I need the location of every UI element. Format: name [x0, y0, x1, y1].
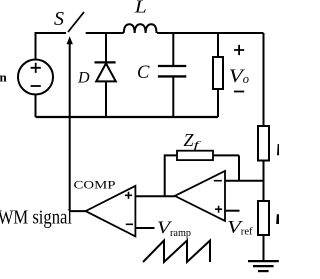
- svg-text:S: S: [54, 8, 64, 30]
- wire source top lead to switch: [36, 33, 67, 60]
- sawtooth Vramp waveform: [143, 241, 210, 263]
- resistor R2: [258, 201, 269, 235]
- svg-text:n: n: [0, 70, 8, 85]
- label Vo: [229, 67, 249, 87]
- label S: [54, 8, 64, 30]
- ground: [248, 261, 279, 271]
- label + (Vo): [234, 45, 244, 55]
- impedance Zf: [165, 151, 239, 197]
- label Vin (cut at edge): [0, 70, 8, 85]
- svg-text:Vref: Vref: [227, 217, 253, 238]
- svg-text:Zf: Zf: [184, 130, 203, 152]
- inductor L: [124, 24, 157, 33]
- capacitor C: [158, 66, 186, 76]
- svg-text:Vramp: Vramp: [157, 218, 191, 239]
- label Zf: [184, 130, 203, 152]
- wire comparator output: [70, 210, 86, 212]
- label L: [134, 0, 147, 17]
- wire load bottom lead: [217, 89, 219, 117]
- wire right branch to R1: [263, 33, 265, 126]
- wire capacitor bottom lead: [172, 77, 174, 117]
- wire error amp plus input to Vref: [225, 210, 240, 212]
- svg-text:L: L: [134, 0, 147, 17]
- label D: [77, 70, 90, 87]
- wire diode anode lead: [105, 82, 107, 118]
- wire control line to switch: [69, 44, 71, 212]
- switch S blade: [68, 12, 84, 32]
- svg-text:PWM signal: PWM signal: [0, 207, 72, 228]
- label R2 (cut at edge): [276, 214, 279, 224]
- label Vref: [227, 217, 253, 238]
- wire error amp output to comparator plus input: [135, 195, 174, 197]
- svg-text:D: D: [77, 70, 90, 87]
- wire source bottom lead: [35, 95, 37, 118]
- wire divider tap to error amp minus input: [225, 180, 264, 182]
- label C: [137, 63, 150, 83]
- wire comparator minus input to Vramp: [135, 227, 154, 229]
- wire bottom rail: [36, 116, 219, 118]
- label R1 (cut at edge): [277, 144, 279, 155]
- wire R2 to ground: [263, 235, 265, 261]
- resistor R1: [258, 126, 269, 161]
- arrowhead control line: [67, 36, 73, 44]
- voltage source Vin: [18, 60, 53, 95]
- svg-text:Vo: Vo: [229, 67, 249, 87]
- wire R1 to R2: [263, 161, 265, 202]
- wire inductor to right corner: [157, 32, 263, 34]
- wire load top lead: [217, 33, 219, 57]
- wire diode cathode lead: [105, 33, 107, 62]
- label - (Vo): [234, 91, 244, 93]
- svg-text:COMP: COMP: [74, 178, 116, 192]
- diode D: [95, 62, 116, 81]
- load resistor: [213, 57, 223, 89]
- wire capacitor top lead: [172, 33, 174, 65]
- wire switch to inductor: [86, 32, 124, 34]
- comparator COMP: [86, 186, 136, 237]
- label PWM signal: [0, 207, 72, 228]
- op-amp error amplifier: [175, 171, 225, 221]
- label Vramp: [157, 218, 191, 239]
- label COMP: [74, 178, 116, 192]
- svg-text:C: C: [137, 63, 150, 83]
